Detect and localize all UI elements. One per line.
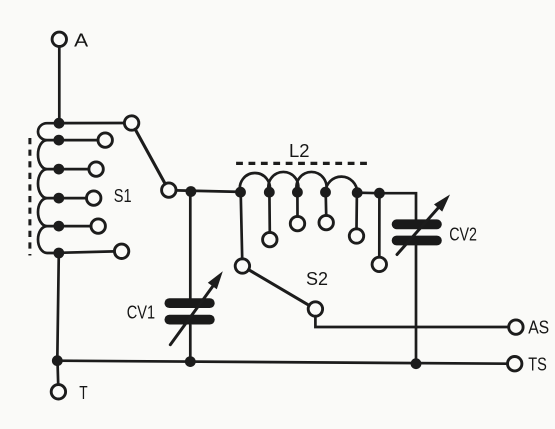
- wire down to CV1: [189, 192, 192, 300]
- coil L2 winding: [240, 172, 357, 193]
- svg-text:CV2: CV2: [449, 223, 477, 244]
- wire L2 tap 1 down: [241, 192, 243, 259]
- terminal TS: [508, 357, 522, 371]
- svg-text:AS: AS: [528, 316, 549, 337]
- node L2 tap 4: [320, 187, 331, 198]
- capacitor CV1 arrow: [170, 285, 213, 345]
- wire L2 tap 3 down: [296, 192, 299, 216]
- L2 tap 5 contact: [349, 229, 363, 243]
- node L2 tap 1: [235, 187, 246, 198]
- wire L2 tap 2 down: [268, 192, 271, 232]
- node L1 tap 5: [53, 248, 64, 259]
- switch S2 contact A: [235, 259, 249, 273]
- node L2 end: [374, 188, 385, 199]
- svg-text:L2: L2: [289, 140, 310, 161]
- wire S1 arm out to node: [176, 190, 241, 192]
- wire junction to S1 common: [59, 122, 124, 125]
- svg-text:CV1: CV1: [127, 301, 155, 322]
- terminal AS: [509, 320, 523, 334]
- switch S2 pivot contact: [308, 302, 322, 316]
- switch S1 arm: [135, 129, 165, 184]
- wire L1 bottom down: [57, 253, 59, 361]
- wire tap 2: [59, 168, 89, 171]
- coil L1 core dashed: [28, 138, 31, 256]
- wire tap 4: [59, 225, 91, 228]
- node CV2 bottom: [411, 358, 422, 369]
- svg-text:TS: TS: [528, 354, 547, 375]
- S1 contact 4: [91, 219, 105, 233]
- node top junction: [54, 118, 65, 129]
- wire tap 3: [59, 197, 87, 200]
- svg-text:T: T: [79, 382, 87, 403]
- capacitor CV2 top plate: [397, 219, 437, 229]
- wire L2 to right branch: [357, 191, 379, 194]
- svg-text:S2: S2: [306, 268, 328, 289]
- coil L2 core dashed: [236, 162, 369, 165]
- S1 contact 2: [89, 162, 103, 176]
- L2 tap 4 contact: [319, 215, 333, 229]
- wire to terminal T: [56, 361, 59, 385]
- S1 contact 3: [87, 191, 101, 205]
- switch S1 selected contact: [162, 183, 176, 197]
- wire S2 to AS: [315, 316, 508, 327]
- node L1 tap 4: [53, 221, 64, 232]
- node bottom left junction: [52, 355, 63, 366]
- capacitor CV2 bottom plate: [397, 236, 437, 246]
- wire A down: [58, 47, 61, 123]
- wire bottom TS line: [57, 361, 507, 364]
- node L1 tap 3: [53, 193, 64, 204]
- node L2 tap 2: [264, 187, 275, 198]
- node L1 tap 1: [53, 135, 64, 146]
- wire tap 5: [59, 251, 115, 252]
- wire tap 1: [59, 139, 98, 142]
- wire L2 end tap down: [378, 193, 381, 257]
- terminal T: [51, 385, 65, 399]
- S1 contact 5: [114, 244, 128, 258]
- S1 contact 1: [98, 133, 112, 147]
- capacitor CV1 top plate: [169, 298, 209, 308]
- terminal A: [52, 32, 66, 46]
- L2 tap 2 contact: [263, 232, 277, 246]
- node CV1 top: [186, 186, 197, 197]
- capacitor CV1 bottom plate: [169, 315, 209, 325]
- wire L2 end to CV2: [379, 193, 416, 219]
- switch S1 common contact: [124, 116, 138, 130]
- svg-text:S1: S1: [114, 185, 132, 206]
- wire L2 tap 4 down: [324, 192, 327, 215]
- wire CV1 to bottom line: [189, 325, 192, 362]
- node L1 tap 2: [53, 164, 64, 175]
- wire L2 tap 5 down: [355, 193, 358, 229]
- capacitor CV2 arrow: [397, 207, 439, 255]
- coil L1 winding: [38, 123, 59, 253]
- L2 end contact: [372, 257, 386, 271]
- L2 tap 3 contact: [290, 216, 304, 230]
- svg-text:A: A: [74, 29, 89, 50]
- wire CV2 down to TS line: [415, 245, 418, 364]
- node L2 tap 3: [292, 187, 303, 198]
- node CV1 bottom: [185, 356, 196, 367]
- switch S2 arm: [249, 270, 310, 306]
- node L2 tap 5: [352, 187, 363, 198]
